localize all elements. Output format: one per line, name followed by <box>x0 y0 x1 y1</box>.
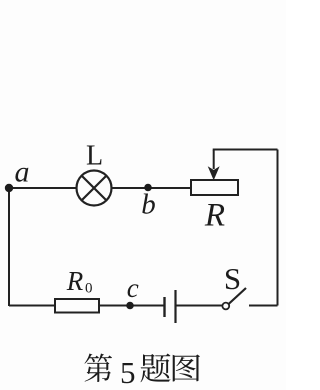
svg-text:b: b <box>141 189 156 221</box>
svg-text:R: R <box>66 266 84 296</box>
svg-text:S: S <box>224 261 241 296</box>
svg-text:a: a <box>15 156 30 189</box>
svg-text:5: 5 <box>120 355 136 390</box>
svg-text:L: L <box>86 141 103 172</box>
svg-text:c: c <box>127 273 139 303</box>
svg-text:0: 0 <box>85 281 93 297</box>
svg-text:R: R <box>204 197 225 233</box>
